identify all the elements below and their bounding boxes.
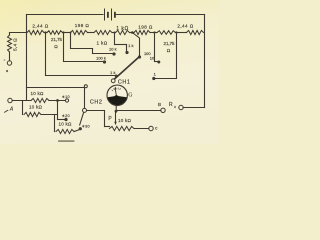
- svg-text:21,75: 21,75: [51, 37, 63, 42]
- svg-text:A: A: [9, 107, 14, 113]
- svg-text:CH1: CH1: [118, 80, 131, 86]
- svg-text:∗30: ∗30: [82, 125, 90, 129]
- svg-text:∗10: ∗10: [62, 95, 70, 99]
- svg-text:10: 10: [150, 55, 155, 60]
- svg-text:a: a: [6, 69, 8, 73]
- svg-text:1 k: 1 k: [128, 43, 133, 48]
- svg-text:10 kΩ: 10 kΩ: [30, 91, 44, 96]
- svg-text:1 kΩ: 1 kΩ: [97, 40, 108, 45]
- svg-text:G: G: [128, 93, 132, 99]
- svg-text:100 k: 100 k: [96, 55, 106, 60]
- svg-text:∗20: ∗20: [62, 114, 70, 118]
- svg-text:B: B: [158, 102, 161, 107]
- svg-text:1 k: 1 k: [110, 70, 115, 75]
- svg-text:198 Ω: 198 Ω: [138, 25, 153, 30]
- svg-text:10 k: 10 k: [109, 47, 117, 52]
- svg-text:x: x: [174, 105, 176, 109]
- svg-text:5,4 Ω: 5,4 Ω: [12, 38, 18, 51]
- svg-text:10 kΩ: 10 kΩ: [118, 118, 132, 123]
- svg-text:10 kΩ: 10 kΩ: [29, 104, 43, 109]
- svg-text:Ω: Ω: [167, 48, 171, 53]
- svg-text:2,44 Ω: 2,44 Ω: [32, 23, 48, 28]
- svg-text:Ω: Ω: [54, 44, 58, 49]
- svg-text:1 kΩ: 1 kΩ: [116, 26, 129, 32]
- svg-text:21,75: 21,75: [164, 41, 176, 46]
- svg-text:R: R: [169, 102, 173, 108]
- svg-text:2,44 Ω: 2,44 Ω: [177, 23, 193, 28]
- svg-text:CH2: CH2: [90, 100, 103, 106]
- svg-text:198 Ω: 198 Ω: [75, 23, 90, 28]
- svg-text:10 kΩ: 10 kΩ: [58, 122, 72, 127]
